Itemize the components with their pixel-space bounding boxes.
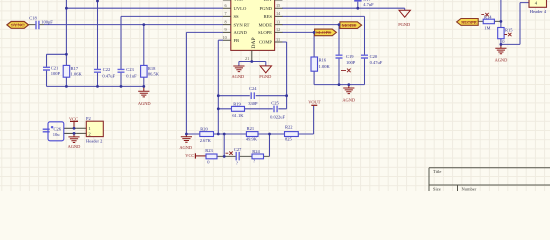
- wire divider row R20 R21 R22: [186, 106, 313, 134]
- svg-text:AGND: AGND: [179, 145, 192, 150]
- wire pin10 FB net: [218, 40, 223, 134]
- ground AGND right rail: [342, 85, 355, 103]
- svg-text:C22: C22: [103, 67, 111, 72]
- svg-text:10u: 10u: [53, 132, 61, 137]
- svg-text:P2: P2: [86, 116, 91, 121]
- no-erc X near C19: [341, 69, 351, 73]
- svg-text:?: ?: [236, 160, 238, 165]
- svg-text:6: 6: [225, 3, 227, 8]
- svg-text:C25: C25: [271, 101, 279, 106]
- capacitor C18: [29, 16, 53, 30]
- connector Header 4 pin box: [529, 0, 547, 14]
- net label SLOPE right: [457, 19, 479, 26]
- svg-text:PGND: PGND: [398, 22, 410, 27]
- svg-text:BST: BST: [264, 0, 273, 2]
- capacitor C23: [118, 67, 138, 78]
- svg-text:100P: 100P: [51, 71, 61, 76]
- no-erc X near R15: [504, 33, 511, 36]
- wire EAP branch: [239, 62, 266, 67]
- resistor R18: [141, 65, 160, 77]
- resistor R22: [285, 125, 299, 142]
- svg-text:R15: R15: [505, 28, 513, 33]
- svg-text:AGND: AGND: [495, 58, 508, 63]
- no-erc X near C27: [226, 152, 233, 155]
- svg-text:2.67K: 2.67K: [200, 138, 212, 143]
- wire pin15 PGND net: [282, 2, 405, 11]
- svg-text:VCC: VCC: [185, 153, 194, 158]
- no-erc X near R14: [481, 13, 488, 16]
- svg-text:R24: R24: [252, 149, 260, 154]
- wire pin8 SYNC net: [29, 24, 44, 26]
- ground PGND top right: [398, 10, 410, 27]
- svg-text:1M: 1M: [484, 26, 490, 31]
- svg-text:Number: Number: [462, 187, 477, 192]
- ground AGND under R18: [138, 86, 151, 106]
- svg-text:13: 13: [276, 19, 280, 24]
- resistor R20: [200, 127, 214, 143]
- svg-text:10: 10: [223, 35, 227, 40]
- svg-text:AGND: AGND: [234, 30, 248, 35]
- svg-text:Title: Title: [433, 169, 441, 174]
- svg-text:R22: R22: [285, 125, 293, 130]
- svg-text:7: 7: [225, 11, 227, 16]
- svg-text:R16: R16: [319, 58, 327, 63]
- ground AGND under R15: [495, 44, 508, 62]
- wire pin7 SS net: [121, 16, 223, 86]
- capacitor C20: [361, 54, 383, 65]
- svg-text:R18: R18: [148, 66, 156, 71]
- svg-text:21: 21: [245, 56, 249, 61]
- wire C24 row: [218, 95, 286, 97]
- wire header4 net: [501, 3, 529, 45]
- svg-text:8: 8: [225, 19, 227, 24]
- svg-text:VCC: VCC: [234, 0, 243, 2]
- capacitor C22: [94, 67, 116, 78]
- svg-text:R19: R19: [233, 102, 241, 107]
- power port VCC at P2: [69, 116, 78, 128]
- svg-text:FB: FB: [234, 38, 240, 43]
- svg-text:12: 12: [276, 27, 280, 32]
- capacitor C19: [336, 54, 356, 65]
- IC U1 regulator: [223, 0, 283, 62]
- svg-text:Header 2: Header 2: [86, 139, 102, 144]
- svg-text:0.47uF: 0.47uF: [102, 74, 115, 79]
- svg-text:1.06K: 1.06K: [71, 72, 83, 77]
- wire vertical to R17: [65, 0, 67, 65]
- svg-text:SLOPE: SLOPE: [258, 30, 272, 35]
- svg-text:C20: C20: [370, 54, 378, 59]
- svg-text:4.7uF: 4.7uF: [363, 2, 374, 7]
- capacitor C24: [248, 86, 258, 106]
- svg-text:0.1uF: 0.1uF: [126, 74, 137, 79]
- svg-text:100P: 100P: [346, 60, 356, 65]
- resistor R14: [483, 14, 494, 30]
- power port VOUT: [308, 100, 321, 106]
- svg-text:AGND: AGND: [68, 144, 81, 149]
- wire R24 riser: [269, 134, 271, 156]
- svg-text:DAP: DAP: [251, 37, 257, 48]
- svg-text:C17: C17: [363, 0, 371, 2]
- wire pin12 SLOPE net: [282, 32, 314, 84]
- svg-text:330P: 330P: [248, 101, 258, 106]
- svg-text:825: 825: [285, 137, 293, 142]
- wire SLOPE2 to R14: [478, 20, 501, 22]
- resistor R16: [311, 57, 330, 71]
- svg-text:R17: R17: [71, 66, 79, 71]
- capacitor C17 top 4.7uF: [354, 0, 374, 7]
- svg-text:R20: R20: [200, 127, 208, 132]
- capacitor C27: [234, 147, 242, 166]
- wire vertical R18: [143, 25, 145, 87]
- capacitor C26 polarized: [43, 122, 64, 141]
- svg-text:15: 15: [276, 3, 280, 8]
- svg-text:SYN RT: SYN RT: [234, 22, 250, 27]
- wire P2 rows: [64, 128, 76, 133]
- svg-text:PGND: PGND: [259, 74, 271, 79]
- svg-text:R21: R21: [247, 126, 255, 131]
- svg-text:61.1K: 61.1K: [232, 113, 244, 118]
- svg-text:C23: C23: [126, 67, 134, 72]
- svg-text:C18: C18: [29, 16, 37, 21]
- svg-text:SS: SS: [234, 14, 240, 19]
- svg-text:AGND: AGND: [342, 98, 355, 103]
- svg-text:R23: R23: [205, 148, 213, 153]
- svg-text:86.5K: 86.5K: [148, 72, 160, 77]
- wire pin14 RES net: [282, 16, 365, 84]
- svg-text:C24: C24: [249, 86, 257, 91]
- wire bottom rail left: [47, 77, 144, 86]
- svg-text:49.9K: 49.9K: [246, 137, 258, 142]
- wire R19 C25 row: [218, 108, 286, 110]
- svg-text:Size: Size: [433, 187, 441, 192]
- capacitor C25: [270, 101, 285, 120]
- resistor R24: [252, 149, 264, 163]
- svg-text:VCC: VCC: [69, 116, 78, 121]
- svg-text:SLOPE: SLOPE: [461, 20, 477, 25]
- wire FB drop to bottom row: [223, 134, 225, 156]
- wire VCC bottom row: [196, 155, 206, 157]
- svg-text:RES: RES: [264, 14, 273, 19]
- wire right riser R15: [500, 0, 502, 44]
- svg-text:AGND: AGND: [232, 74, 245, 79]
- svg-text:C26: C26: [54, 126, 62, 131]
- ground PGND under IC: [259, 66, 271, 79]
- ground AGND under IC: [232, 66, 245, 79]
- svg-text:0.47uF: 0.47uF: [370, 60, 383, 65]
- connector P2 Header 2: [76, 116, 103, 143]
- wire pin6 UVLO net: [66, 7, 223, 9]
- wire vertical C22: [97, 0, 99, 86]
- wire pin13 MODE net: [282, 25, 339, 85]
- wire pin11 COMP net: [282, 42, 287, 109]
- ground AGND at P2: [68, 133, 81, 149]
- title block: [429, 168, 550, 192]
- net label MODE: [340, 22, 362, 29]
- svg-text:1.00K: 1.00K: [319, 64, 331, 69]
- wire C21 top rail: [47, 54, 67, 86]
- power port VCC bottom: [185, 153, 195, 159]
- svg-text:VOUT: VOUT: [308, 100, 321, 105]
- wire right AGND rail: [314, 84, 364, 86]
- ground AGND divider: [179, 134, 192, 150]
- wire bottom row segments: [217, 155, 270, 157]
- port SYNC: [7, 22, 29, 29]
- resistor R19: [232, 102, 245, 118]
- svg-text:C19: C19: [346, 54, 354, 59]
- svg-text:?: ?: [253, 158, 255, 163]
- svg-text:9: 9: [225, 27, 227, 32]
- svg-text:C27: C27: [234, 147, 242, 152]
- svg-text:AGND: AGND: [138, 101, 151, 106]
- svg-text:COMP: COMP: [259, 40, 272, 45]
- resistor R15: [498, 28, 514, 45]
- svg-text:Header 4: Header 4: [530, 9, 547, 14]
- capacitor C21: [43, 66, 61, 76]
- net label SLOPE: [315, 29, 337, 36]
- resistor R23: [205, 148, 217, 164]
- svg-text:0.022uF: 0.022uF: [270, 114, 285, 119]
- resistor R17: [63, 65, 82, 77]
- svg-text:UVLO: UVLO: [234, 6, 247, 11]
- resistor R21: [246, 126, 258, 142]
- wire pin9 AGND net: [186, 32, 223, 134]
- svg-text:11: 11: [276, 37, 280, 42]
- svg-text:MODE: MODE: [258, 22, 272, 27]
- svg-text:100pF: 100pF: [41, 20, 53, 25]
- svg-text:PGND: PGND: [259, 6, 272, 11]
